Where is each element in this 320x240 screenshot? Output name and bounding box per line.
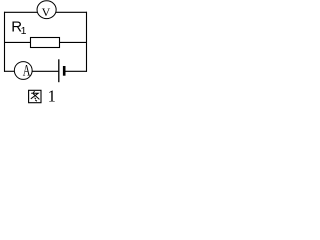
wire middle-left segment (4, 41, 31, 43)
wire bottom-right segment (65, 70, 87, 72)
wire top-left segment (4, 11, 38, 13)
wire middle-right segment (60, 41, 88, 43)
wire bottom-middle segment (33, 70, 59, 72)
svg-text:1: 1 (21, 25, 27, 37)
svg-text:1: 1 (48, 87, 56, 104)
wire bottom-left segment (4, 70, 14, 72)
svg-text:V: V (42, 5, 51, 19)
svg-text:A: A (23, 61, 31, 79)
wire right vertical (86, 12, 88, 72)
wire top-right segment (56, 11, 87, 13)
battery cell: short thick plate (63, 66, 66, 76)
voltmeter V (37, 1, 56, 19)
caption character 图 (drawn) (29, 90, 41, 102)
battery cell: long thin plate (58, 59, 60, 82)
resistor R1 (11, 19, 59, 48)
ammeter A (14, 61, 32, 79)
wire left vertical (4, 12, 6, 72)
